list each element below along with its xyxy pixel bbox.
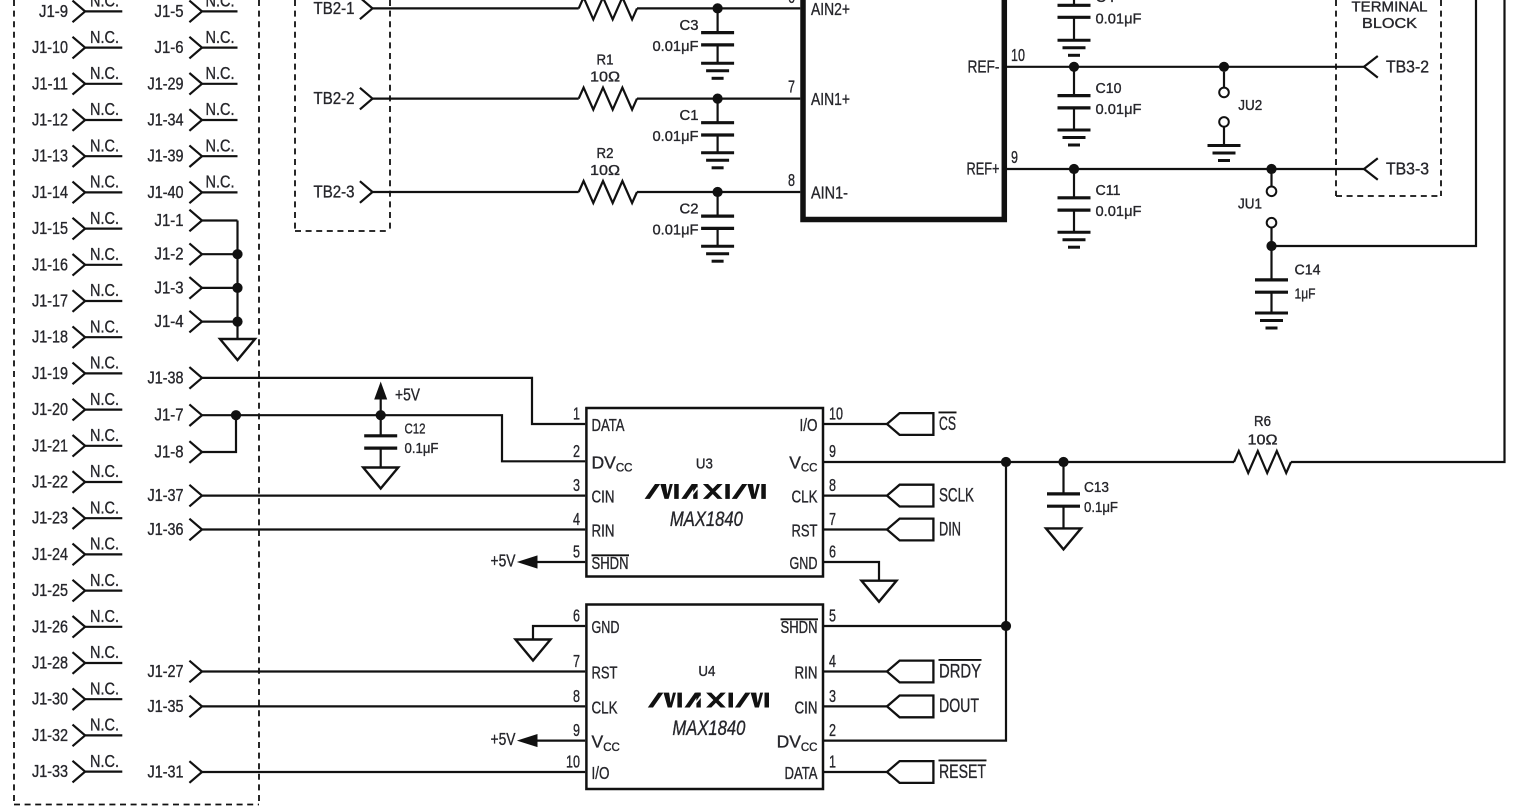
- svg-text:C1: C1: [680, 108, 699, 124]
- capacitor C11 0.01uF: [1058, 169, 1142, 232]
- svg-text:CLK: CLK: [792, 487, 818, 507]
- svg-text:2: 2: [829, 720, 836, 740]
- svg-text:J1-7: J1-7: [155, 405, 184, 425]
- svg-text:3: 3: [829, 686, 836, 706]
- svg-text:N.C.: N.C.: [90, 244, 119, 264]
- svg-text:6: 6: [573, 606, 580, 626]
- svg-text:J1-27: J1-27: [148, 661, 184, 681]
- wire J1-31 to U4 I/O (pin 10): [202, 771, 585, 773]
- resistor (top, ref cut off) 10ohm in TB2-1 line: [579, 0, 637, 19]
- connector pin J1-20 (N.C.): [32, 389, 122, 421]
- resistor R6 10ohm: [1234, 414, 1291, 473]
- connector pin J1-19 (N.C.): [32, 353, 122, 385]
- svg-text:N.C.: N.C.: [206, 99, 235, 119]
- svg-text:VCC: VCC: [789, 452, 817, 474]
- svg-text:N.C.: N.C.: [90, 497, 119, 517]
- connector pin J1-30 (N.C.): [32, 678, 122, 710]
- svg-text:9: 9: [1011, 147, 1018, 167]
- U3 pin 4 RIN: [573, 509, 615, 541]
- ground (earth) below C14: [1255, 313, 1288, 328]
- svg-text:N.C.: N.C.: [90, 0, 119, 11]
- svg-text:10: 10: [1011, 45, 1025, 65]
- svg-text:DIN: DIN: [939, 519, 961, 540]
- wire J1-8 up to J1-7 net: [202, 415, 236, 452]
- svg-text:DATA: DATA: [592, 415, 625, 435]
- svg-text:RST: RST: [792, 521, 818, 541]
- ground (earth) below C10: [1058, 130, 1091, 145]
- svg-text:J1-24: J1-24: [32, 544, 68, 564]
- svg-text:N.C.: N.C.: [90, 389, 119, 409]
- svg-text:TB3-3: TB3-3: [1386, 159, 1429, 179]
- svg-text:AIN1+: AIN1+: [811, 89, 850, 109]
- svg-text:0.01μF: 0.01μF: [653, 129, 699, 145]
- ground (triangle) below U3 GND: [862, 581, 897, 602]
- svg-text:CS: CS: [939, 414, 956, 435]
- flag DIN: [887, 519, 961, 541]
- svg-text:N.C.: N.C.: [90, 461, 119, 481]
- connector pin J1-2: [155, 243, 238, 265]
- jumper JU1: [1238, 174, 1276, 246]
- connector pin J1-15 (N.C.): [32, 208, 122, 240]
- svg-text:RIN: RIN: [592, 521, 615, 541]
- svg-text:J1-33: J1-33: [32, 761, 68, 781]
- wire U3 RST to DIN flag: [824, 528, 887, 530]
- wire TB2-1 to AIN2+ (pin 6): [373, 7, 801, 9]
- svg-text:GND: GND: [790, 553, 818, 573]
- svg-text:1μF: 1μF: [1295, 286, 1316, 302]
- svg-text:TB2-2: TB2-2: [314, 88, 355, 108]
- junction JU1 node: [1266, 164, 1276, 174]
- capacitor C10 0.01uF: [1058, 67, 1142, 130]
- connector pin J1-32 (N.C.): [32, 715, 122, 747]
- connector pin J1-37: [148, 485, 203, 507]
- connector pin J1-33 (N.C.): [32, 751, 122, 783]
- capacitor C12 0.1uF: [364, 415, 438, 467]
- U3 pin 7 RST: [792, 509, 837, 541]
- svg-text:N.C.: N.C.: [90, 642, 119, 662]
- connector pin J1-10 (N.C.): [32, 27, 122, 59]
- junction J1-3: [232, 283, 242, 293]
- wire U4 GND to ground: [533, 626, 585, 640]
- connector pin J1-27: [148, 661, 203, 683]
- connector pin J1-4: [155, 311, 238, 333]
- svg-text:J1-10: J1-10: [32, 37, 68, 57]
- connector pin J1-24 (N.C.): [32, 534, 122, 566]
- svg-text:MAX1840: MAX1840: [672, 717, 745, 740]
- svg-text:10: 10: [566, 752, 580, 772]
- svg-text:JU2: JU2: [1238, 98, 1262, 114]
- svg-text:+5V: +5V: [491, 551, 516, 571]
- svg-text:AIN2+: AIN2+: [811, 0, 850, 19]
- svg-text:J1-6: J1-6: [155, 37, 184, 57]
- connector pin J1-14 (N.C.): [32, 172, 122, 204]
- capacitor C1 0.01uF: [653, 99, 735, 153]
- junction C14 node: [1266, 241, 1276, 251]
- svg-text:J1-4: J1-4: [155, 311, 184, 331]
- svg-text:10Ω: 10Ω: [590, 163, 620, 179]
- svg-text:J1-2: J1-2: [155, 244, 184, 264]
- svg-text:N.C.: N.C.: [90, 678, 119, 698]
- connector pin J1-1: [155, 210, 238, 232]
- svg-text:6: 6: [829, 542, 836, 562]
- pin 8 AIN1- label: [788, 170, 848, 203]
- pin 7 AIN1+ label: [788, 77, 850, 110]
- svg-text:N.C.: N.C.: [90, 570, 119, 590]
- svg-text:N.C.: N.C.: [90, 425, 119, 445]
- svg-text:J1-36: J1-36: [148, 519, 184, 539]
- flag SCLK: [887, 485, 974, 507]
- connector pin J1-11 (N.C.): [32, 63, 122, 95]
- svg-text:CLK: CLK: [592, 698, 618, 718]
- wire U3 GND to ground: [824, 562, 879, 581]
- terminal TB3-3: [1364, 158, 1429, 180]
- svg-text:+5V: +5V: [395, 385, 420, 405]
- svg-text:0.01μF: 0.01μF: [653, 39, 699, 55]
- svg-text:J1-18: J1-18: [32, 327, 68, 347]
- svg-text:J1-25: J1-25: [32, 580, 68, 600]
- svg-text:1: 1: [573, 404, 580, 424]
- svg-text:0.1μF: 0.1μF: [405, 441, 439, 457]
- svg-text:J1-38: J1-38: [148, 367, 184, 387]
- U3 pin 10 I/O: [800, 404, 844, 436]
- connector pin J1-9 (N.C.): [39, 0, 122, 22]
- svg-text:N.C.: N.C.: [90, 135, 119, 155]
- terminal TB2-2: [314, 88, 373, 110]
- junction J1-2: [232, 249, 242, 259]
- svg-text:N.C.: N.C.: [206, 172, 235, 192]
- power +5V arrow (up) on J1-7 net: [375, 383, 420, 415]
- svg-text:J1-31: J1-31: [148, 762, 184, 782]
- junction C13 node: [1058, 457, 1068, 467]
- connector pin J1-22 (N.C.): [32, 461, 122, 493]
- svg-text:U4: U4: [698, 663, 715, 680]
- U4 pin 9 VCC: [573, 720, 620, 754]
- svg-text:5: 5: [829, 606, 836, 626]
- svg-text:R6: R6: [1254, 414, 1271, 430]
- connector pin J1-25 (N.C.): [32, 570, 122, 602]
- connector pin J1-29 (N.C.): [148, 63, 238, 95]
- U3 pin 2 DVCC: [573, 441, 632, 475]
- svg-text:CIN: CIN: [592, 487, 615, 507]
- svg-text:TB2-3: TB2-3: [314, 182, 355, 202]
- U4 pin 10 I/O: [566, 752, 610, 784]
- capacitor C3 0.01uF: [653, 8, 735, 63]
- svg-text:C4: C4: [1096, 0, 1115, 6]
- svg-text:R2: R2: [597, 146, 614, 162]
- svg-text:4: 4: [573, 509, 580, 529]
- svg-text:U3: U3: [696, 455, 713, 472]
- wire VCC vertical rail to U4 DVCC: [824, 462, 1006, 741]
- svg-text:DVCC: DVCC: [592, 452, 633, 474]
- svg-text:DOUT: DOUT: [939, 696, 979, 717]
- connector pin J1-23 (N.C.): [32, 497, 122, 529]
- svg-text:TB3-2: TB3-2: [1386, 56, 1429, 76]
- jumper JU2: [1219, 72, 1262, 146]
- svg-text:SCLK: SCLK: [939, 485, 974, 506]
- wire J1-1..J1-4 ground bus: [236, 221, 238, 340]
- ground (earth) below C1: [701, 153, 734, 168]
- junction J1-8/J1-7 net: [231, 410, 241, 420]
- svg-text:J1-11: J1-11: [32, 73, 68, 93]
- U3 pin 1 DATA: [573, 404, 625, 436]
- connector pin J1-12 (N.C.): [32, 99, 122, 131]
- svg-text:J1-17: J1-17: [32, 291, 68, 311]
- svg-text:BLOCK: BLOCK: [1362, 16, 1417, 32]
- U3 pin 6 GND: [790, 542, 837, 574]
- IC U4 MAX1840 box: [586, 605, 823, 790]
- ground (triangle) below C13: [1046, 528, 1081, 549]
- terminal block TB2 dashed outline: [295, 0, 390, 231]
- wire J1-35 to U4 CLK (pin 8): [202, 705, 585, 707]
- svg-text:J1-14: J1-14: [32, 182, 68, 202]
- svg-text:J1-16: J1-16: [32, 254, 68, 274]
- svg-text:J1-28: J1-28: [32, 653, 68, 673]
- svg-text:N.C.: N.C.: [90, 63, 119, 83]
- svg-text:3: 3: [573, 475, 580, 495]
- terminal TB2-3: [314, 181, 373, 203]
- svg-text:C13: C13: [1084, 480, 1109, 496]
- svg-text:N.C.: N.C.: [90, 280, 119, 300]
- svg-text:J1-34: J1-34: [148, 110, 184, 130]
- U3 pin 5 SHDN (active low): [573, 542, 629, 574]
- svg-text:C11: C11: [1096, 183, 1121, 199]
- svg-text:C2: C2: [680, 201, 699, 217]
- svg-text:J1-37: J1-37: [148, 485, 184, 505]
- svg-text:0.01μF: 0.01μF: [1096, 204, 1142, 220]
- svg-text:0.01μF: 0.01μF: [1096, 102, 1142, 118]
- svg-text:RESET: RESET: [939, 762, 986, 783]
- svg-text:7: 7: [829, 509, 836, 529]
- resistor R2 10ohm: [579, 146, 637, 203]
- svg-text:J1-8: J1-8: [155, 442, 184, 462]
- connector pin J1-18 (N.C.): [32, 316, 122, 348]
- svg-text:N.C.: N.C.: [90, 27, 119, 47]
- connector pin J1-21 (N.C.): [32, 425, 122, 457]
- wire TB2-3 to AIN1- (pin 8): [373, 191, 801, 193]
- wire J1-7 +5V net to U3 DVCC (pin 2): [202, 415, 585, 461]
- connector pin J1-6 (N.C.): [155, 27, 238, 59]
- svg-text:N.C.: N.C.: [90, 316, 119, 336]
- flag DOUT: [887, 696, 979, 718]
- wire J1-36 to U3 RIN (pin 4): [202, 528, 585, 530]
- wire U3 CLK to SCLK flag: [824, 495, 887, 497]
- svg-text:N.C.: N.C.: [206, 135, 235, 155]
- svg-text:9: 9: [829, 441, 836, 461]
- svg-text:J1-1: J1-1: [155, 210, 184, 230]
- ground (earth) below C2: [701, 246, 734, 261]
- connector pin J1-35: [148, 696, 203, 718]
- wire U4 CIN to DOUT flag: [824, 705, 887, 707]
- svg-text:N.C.: N.C.: [90, 208, 119, 228]
- svg-text:1: 1: [829, 752, 836, 772]
- wire TB2-2 to AIN1+ (pin 7): [373, 97, 801, 99]
- svg-text:N.C.: N.C.: [90, 534, 119, 554]
- connector pin J1-38: [148, 367, 203, 389]
- wire U4 DATA to RESET flag: [824, 771, 887, 773]
- svg-text:TB2-1: TB2-1: [314, 0, 355, 18]
- flag CS (active low): [887, 412, 957, 435]
- svg-text:10Ω: 10Ω: [1248, 433, 1278, 449]
- svg-text:J1-12: J1-12: [32, 110, 68, 130]
- connector pin J1-26 (N.C.): [32, 606, 122, 638]
- svg-text:J1-23: J1-23: [32, 508, 68, 528]
- ground (earth) below C11: [1058, 232, 1091, 247]
- wire J1-38 to U3 DATA (pin 1): [202, 378, 585, 424]
- svg-text:10Ω: 10Ω: [590, 70, 620, 86]
- connector pin J1-8: [155, 441, 203, 463]
- connector pin J1-39 (N.C.): [148, 135, 238, 167]
- svg-text:0.01μF: 0.01μF: [1096, 12, 1142, 28]
- svg-text:10: 10: [829, 404, 843, 424]
- wire J1-37 to U3 CIN (pin 3): [202, 495, 585, 497]
- connector pin J1-40 (N.C.): [148, 172, 238, 204]
- svg-text:J1-26: J1-26: [32, 616, 68, 636]
- svg-text:N.C.: N.C.: [206, 63, 235, 83]
- connector pin J1-28 (N.C.): [32, 642, 122, 674]
- wire U4 SHDN to VCC rail: [824, 625, 1006, 627]
- svg-text:DRDY: DRDY: [939, 661, 981, 682]
- pin 9 REF+ label: [967, 147, 1019, 179]
- terminal TB3-2: [1364, 56, 1429, 78]
- wire U3 I/O to CS flag: [824, 423, 887, 425]
- connector pin J1-34 (N.C.): [148, 99, 238, 131]
- IC U1 MAX1402 (top of schematic, cut off) box: [803, 0, 1004, 220]
- connector pin J1-31: [148, 761, 203, 783]
- svg-text:J1-40: J1-40: [148, 182, 184, 202]
- flag RESET (active low): [887, 760, 987, 783]
- connector pin J1-7: [155, 404, 203, 426]
- terminal block TB3 dashed outline and title: [1336, 0, 1441, 196]
- svg-text:7: 7: [573, 651, 580, 671]
- svg-text:N.C.: N.C.: [90, 715, 119, 735]
- svg-text:J1-19: J1-19: [32, 363, 68, 383]
- svg-text:J1-29: J1-29: [148, 73, 184, 93]
- ground (earth) below JU2: [1208, 146, 1241, 161]
- pin 6 AIN2+ label: [788, 0, 850, 19]
- capacitor C2 0.01uF: [653, 192, 735, 246]
- wire REF+ to TB3-3: [1007, 168, 1364, 170]
- svg-text:J1-30: J1-30: [32, 689, 68, 709]
- junction J1-4: [232, 317, 242, 327]
- wire J1-27 to U4 RST (pin 7): [202, 670, 585, 672]
- svg-text:J1-15: J1-15: [32, 218, 68, 238]
- svg-text:J1-9: J1-9: [39, 1, 68, 21]
- svg-text:8: 8: [573, 686, 580, 706]
- svg-text:9: 9: [573, 720, 580, 740]
- resistor R1 10ohm: [579, 53, 637, 110]
- svg-text:7: 7: [788, 77, 795, 97]
- svg-text:J1-20: J1-20: [32, 399, 68, 419]
- svg-text:J1-13: J1-13: [32, 146, 68, 166]
- svg-text:REF+: REF+: [967, 159, 1000, 179]
- junction C11 node: [1069, 164, 1079, 174]
- svg-text:R1: R1: [597, 53, 614, 69]
- flag DRDY (active low): [887, 660, 982, 683]
- svg-text:J1-32: J1-32: [32, 725, 68, 745]
- svg-text:RIN: RIN: [795, 663, 818, 683]
- svg-text:JU1: JU1: [1238, 197, 1262, 213]
- svg-text:0.01μF: 0.01μF: [653, 222, 699, 238]
- svg-text:8: 8: [829, 475, 836, 495]
- capacitor C13 0.1uF: [1047, 462, 1118, 528]
- svg-text:TERMINAL: TERMINAL: [1352, 0, 1428, 15]
- svg-text:J1-35: J1-35: [148, 696, 184, 716]
- svg-text:C14: C14: [1295, 262, 1321, 278]
- svg-text:+5V: +5V: [491, 729, 516, 749]
- svg-text:C12: C12: [405, 421, 426, 437]
- U4 pin 1 DATA: [785, 752, 837, 784]
- junction +5V / C12 node: [376, 410, 386, 420]
- U4 pin 3 CIN: [795, 686, 837, 718]
- U4 pin 8 CLK: [573, 686, 618, 718]
- svg-text:I/O: I/O: [800, 415, 818, 435]
- svg-text:J1-21: J1-21: [32, 435, 68, 455]
- pin 10 REF- label: [968, 45, 1026, 77]
- U4 pin 6 GND: [573, 606, 620, 638]
- U4 pin 7 RST: [573, 651, 618, 683]
- wire U4 RIN to DRDY flag: [824, 670, 887, 672]
- svg-text:VCC: VCC: [592, 732, 620, 754]
- junction C1 node: [713, 94, 723, 104]
- connector pin J1-16 (N.C.): [32, 244, 122, 276]
- svg-text:DVCC: DVCC: [777, 732, 818, 754]
- ground (triangle) below C12: [363, 468, 398, 489]
- connector pin J1-13 (N.C.): [32, 135, 122, 167]
- svg-text:N.C.: N.C.: [90, 172, 119, 192]
- svg-text:J1-39: J1-39: [148, 146, 184, 166]
- wire REF- to TB3-2: [1007, 66, 1364, 68]
- svg-text:RST: RST: [592, 663, 618, 683]
- svg-text:N.C.: N.C.: [206, 27, 235, 47]
- ground (earth) below C3: [701, 63, 734, 78]
- svg-text:4: 4: [829, 651, 836, 671]
- U4 pin 4 RIN: [795, 651, 837, 683]
- svg-text:C3: C3: [680, 18, 699, 34]
- IC U3 MAX1840 box: [586, 408, 823, 577]
- svg-text:2: 2: [573, 441, 580, 461]
- U4 pin 5 SHDN (active low): [781, 606, 837, 638]
- ground (triangle) below U4 GND wire: [516, 640, 551, 661]
- connector pin J1-5 (N.C.): [155, 0, 238, 22]
- svg-text:J1-22: J1-22: [32, 472, 68, 492]
- svg-text:N.C.: N.C.: [90, 353, 119, 373]
- svg-text:5: 5: [573, 542, 580, 562]
- junction SHDN / VCC rail: [1001, 621, 1011, 631]
- connector pin J1-36: [148, 519, 203, 541]
- wire JU1 node to right vertical rail: [1272, 0, 1477, 246]
- wire U3 VCC net to R6: [824, 461, 1234, 463]
- junction C2 node: [713, 187, 723, 197]
- power +5V arrow into U4 VCC: [491, 729, 586, 749]
- junction C3 node: [713, 3, 723, 13]
- U4 pin 2 DVCC: [777, 720, 836, 754]
- U3 pin 8 CLK: [792, 475, 837, 507]
- connector pin J1-3: [155, 277, 238, 299]
- svg-text:N.C.: N.C.: [90, 99, 119, 119]
- svg-text:CIN: CIN: [795, 698, 818, 718]
- junction VCC net / vertical rail: [1001, 457, 1011, 467]
- svg-text:AIN1-: AIN1-: [811, 183, 848, 203]
- svg-text:J1-3: J1-3: [155, 277, 184, 297]
- wire R6 to right vertical rail (off page): [1291, 0, 1505, 462]
- svg-text:J1-5: J1-5: [155, 1, 184, 21]
- svg-text:8: 8: [788, 170, 795, 190]
- svg-text:N.C.: N.C.: [90, 751, 119, 771]
- svg-text:GND: GND: [592, 617, 620, 637]
- junction C10 node: [1069, 62, 1079, 72]
- ground (earth) below that capacitor: [1058, 40, 1091, 55]
- U3 pin 9 VCC: [789, 441, 836, 475]
